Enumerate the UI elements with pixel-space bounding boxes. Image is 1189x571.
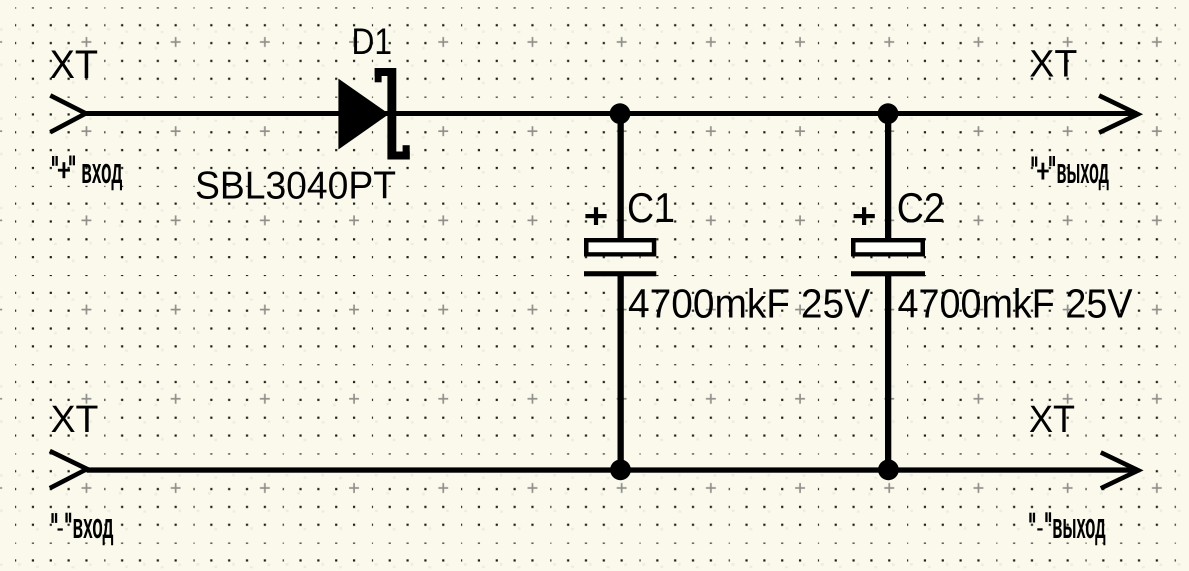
node junction bottom C2: [878, 459, 899, 480]
terminal XT input - (left chevron): [50, 451, 87, 488]
svg-text:4700mkF 25V: 4700mkF 25V: [628, 281, 870, 327]
svg-text:XT: XT: [1029, 399, 1075, 441]
svg-text:SBL3040PT: SBL3040PT: [195, 164, 396, 207]
svg-text:вход: вход: [73, 505, 114, 546]
label "+" вход (quotes): [52, 156, 75, 166]
svg-text:C1: C1: [627, 184, 675, 231]
svg-text:D1: D1: [352, 20, 393, 62]
svg-text:C2: C2: [897, 184, 945, 231]
diode D1 schottky top hook stub: [375, 68, 382, 82]
diode D1 schottky bottom hook arm: [388, 152, 410, 160]
diode D1 schottky bottom hook stub: [403, 145, 410, 159]
capacitor C1 bottom plate: [584, 271, 656, 276]
capacitor C1 top plate: [584, 238, 656, 257]
wire: bottom negative rail: [87, 467, 1138, 472]
capacitor C2 polarity plus: [854, 207, 875, 225]
capacitor C2 top plate: [851, 238, 925, 257]
label "-" вход (quotes): [51, 513, 71, 523]
svg-text:выход: выход: [1057, 150, 1110, 191]
node junction top C2: [878, 103, 899, 124]
diode D1 anode triangle: [338, 79, 389, 150]
label "-" выход (quotes): [1029, 512, 1051, 522]
diode D1 cathode bar (Schottky): [387, 68, 396, 160]
wire C1 vertical lower: [618, 276, 624, 469]
capacitor C1 polarity plus: [585, 207, 606, 225]
label "+" выход (quotes): [1032, 156, 1056, 167]
label "-" вход (minus sign): [58, 528, 63, 530]
label "+" выход (plus sign): [1037, 163, 1049, 180]
wire C2 vertical upper: [885, 116, 891, 241]
svg-text:XT: XT: [1029, 44, 1077, 86]
svg-text:4700mkF 25V: 4700mkF 25V: [898, 281, 1133, 327]
svg-text:XT: XT: [50, 43, 99, 87]
node junction bottom C1: [610, 459, 631, 480]
diode D1 schottky top hook arm: [375, 68, 396, 76]
terminal XT output - (right chevron): [1101, 452, 1139, 488]
label "-" выход (minus sign): [1037, 528, 1042, 530]
terminal XT output + (right chevron): [1099, 96, 1138, 133]
svg-text:выход: выход: [1052, 505, 1106, 546]
node junction top C1: [610, 103, 631, 124]
svg-text:вход: вход: [81, 150, 122, 191]
terminal XT input + (left chevron): [50, 95, 86, 132]
label "+" вход (plus sign): [58, 162, 70, 178]
wire C2 vertical lower: [885, 276, 891, 469]
svg-text:XT: XT: [51, 399, 99, 441]
wire: top positive rail: [86, 111, 1137, 116]
wire C1 vertical upper: [618, 116, 624, 241]
capacitor C2 bottom plate: [851, 271, 925, 276]
